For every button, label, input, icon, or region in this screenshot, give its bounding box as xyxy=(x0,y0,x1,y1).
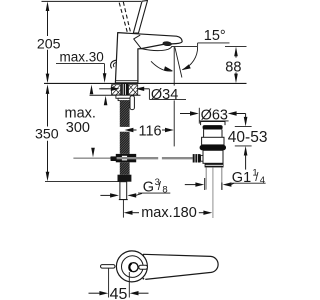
drain centerline xyxy=(212,167,214,218)
svg-text:Ø34: Ø34 xyxy=(151,87,178,103)
top reference line xyxy=(42,0,142,2)
G1 1/4 label xyxy=(185,168,266,187)
diameter 34 label xyxy=(99,87,186,104)
drain tailpipe xyxy=(205,167,207,189)
svg-text:max.30: max.30 xyxy=(60,50,104,65)
lever top view xyxy=(101,251,219,282)
svg-text:205: 205 xyxy=(37,36,61,52)
stream tilted line xyxy=(175,47,182,77)
dimension max.180 xyxy=(123,200,212,221)
dimension 40-53 xyxy=(228,114,268,170)
svg-text:G1: G1 xyxy=(232,170,251,186)
lever solid (down position) xyxy=(133,1,147,34)
svg-text:88: 88 xyxy=(225,60,241,76)
max.300 label xyxy=(65,85,96,158)
spout underside line xyxy=(141,46,172,50)
drain O-ring xyxy=(200,145,226,150)
G3/8 pipe xyxy=(120,182,127,200)
dimension 116 xyxy=(125,123,174,139)
supply shank through counter xyxy=(121,83,128,95)
svg-text:116: 116 xyxy=(139,123,162,139)
faucet body xyxy=(115,33,182,83)
svg-text:max.180: max.180 xyxy=(141,205,197,221)
dimension 350 xyxy=(35,84,59,181)
drain body upper xyxy=(202,137,224,145)
rod knob at drain xyxy=(193,154,201,162)
rod connector xyxy=(111,156,117,161)
lever dashed (raised position) xyxy=(119,3,127,32)
svg-text:40-53: 40-53 xyxy=(228,129,268,146)
drain pop-up waste: cap xyxy=(201,122,225,126)
svg-text:8: 8 xyxy=(162,184,167,195)
braided supply hose xyxy=(120,100,130,127)
svg-text:15°: 15° xyxy=(204,28,226,44)
svg-text:45: 45 xyxy=(110,286,128,300)
aerator xyxy=(163,41,172,46)
15 degree dimension xyxy=(151,28,230,73)
350 bottom reference line xyxy=(45,181,120,183)
hose tee fitting xyxy=(116,154,136,162)
countertop section xyxy=(44,83,247,95)
dimension 88 xyxy=(225,46,247,83)
drain flange xyxy=(205,163,224,167)
svg-text:350: 350 xyxy=(35,126,59,142)
spout centerline xyxy=(173,47,175,86)
faucet base plinth line xyxy=(116,80,138,82)
svg-text:max.: max. xyxy=(65,105,96,121)
diameter 63 dimension xyxy=(180,107,246,123)
mounting washer and nut xyxy=(116,95,134,98)
handle hook (left) xyxy=(111,60,117,68)
pop-up rod stub xyxy=(130,96,134,110)
svg-text:300: 300 xyxy=(66,120,90,136)
drain body lower xyxy=(203,150,223,163)
max.30 label xyxy=(56,50,107,105)
dimension 45 xyxy=(89,269,149,300)
drain cap skirt xyxy=(204,130,222,138)
hose end nut xyxy=(118,175,132,182)
G3/8 label xyxy=(100,177,170,198)
svg-text:4: 4 xyxy=(260,175,265,186)
svg-text:G: G xyxy=(143,180,154,196)
dimension 205 xyxy=(37,1,61,83)
faucet front fold line xyxy=(134,35,142,49)
pop-up rod horizontal xyxy=(73,157,110,159)
